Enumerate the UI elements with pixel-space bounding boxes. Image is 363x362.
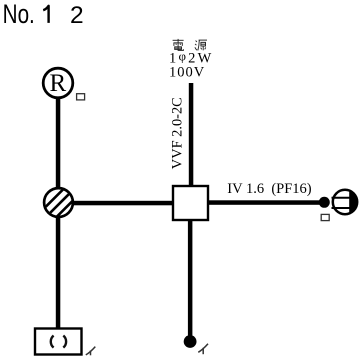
label ロ (for lampholder) <box>77 94 85 100</box>
power source label 電源 1φ2W 100V <box>169 39 214 81</box>
wire: box down to switch イ <box>188 220 193 336</box>
switch イ (filled dot, bottom) <box>184 335 197 348</box>
label ロ (for switch right) <box>321 214 329 220</box>
VVF joint box (hatched circle) <box>39 175 78 235</box>
wire: box to receptacle (horizontal right) <box>208 200 320 205</box>
title No.12 <box>3 0 84 30</box>
switch ロ (filled dot, right) <box>319 197 330 208</box>
wire: lampholder R down to joint box <box>56 98 61 188</box>
kanji 源 (source) <box>195 40 207 50</box>
title digit 1 (narrow JP style) <box>43 6 48 23</box>
wall receptacle (circle, half filled, two bars) <box>332 188 362 216</box>
svg-text:VVF 2.0-2C: VVF 2.0-2C <box>170 97 186 169</box>
svg-text:R: R <box>50 70 67 97</box>
svg-text:IV 1.6 (PF16): IV 1.6 (PF16) <box>227 181 311 197</box>
svg-text:2: 2 <box>70 2 84 29</box>
kanji 電 (electric) <box>173 39 184 51</box>
svg-text:100V: 100V <box>169 65 205 81</box>
outlet box (square) <box>173 186 208 220</box>
label イ (for ceiling rose) <box>86 347 96 356</box>
wire: power feed (vertical, top) <box>189 83 194 187</box>
ceiling rose (rectangle with parens) <box>35 329 82 355</box>
wire: joint box down to ceiling rose <box>56 217 61 328</box>
lampholder R <box>43 68 73 98</box>
label イ (for switch bottom) <box>198 344 208 354</box>
svg-text:No.: No. <box>3 0 35 30</box>
wire: box to lamp circuit (horizontal left) <box>72 201 173 206</box>
